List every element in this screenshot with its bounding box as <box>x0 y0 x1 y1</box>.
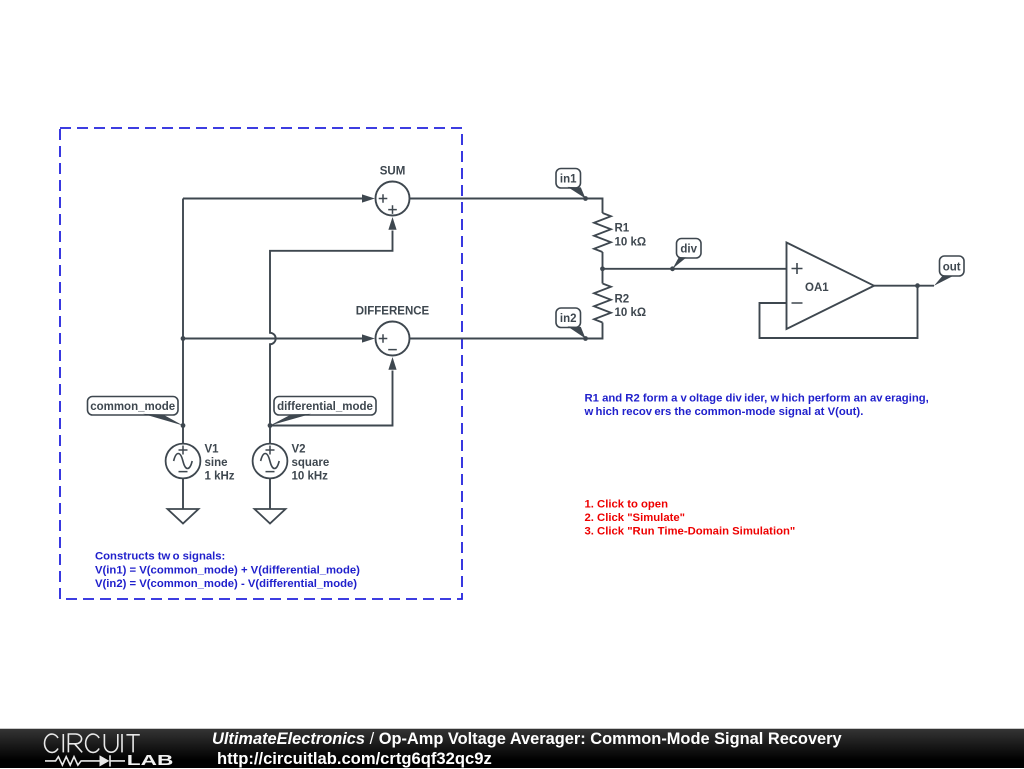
logo letter I <box>121 734 123 752</box>
arrowhead into DIFFERENCE bottom <box>388 357 396 370</box>
node tag in2 <box>556 308 586 339</box>
wire R2 bottom to in2 <box>410 323 603 339</box>
node junction in2 <box>583 336 588 341</box>
op-amp OA1 <box>787 243 875 330</box>
svg-text:V(in1) = V(common_mode) + V(di: V(in1) = V(common_mode) + V(differential… <box>95 565 360 577</box>
svg-text:V2: V2 <box>292 444 306 456</box>
svg-text:LAB: LAB <box>127 752 174 769</box>
arrowhead into SUM left <box>362 194 375 202</box>
node junction differential_mode tag <box>268 423 273 428</box>
wire to SUM plus input <box>183 198 362 200</box>
footer bar <box>0 728 1024 768</box>
svg-text:V1: V1 <box>205 444 220 456</box>
wire V2 up branch with hop to SUM <box>270 231 393 426</box>
svg-text:10 kΩ: 10 kΩ <box>615 237 647 249</box>
summing block SUM <box>376 166 410 216</box>
svg-text:Constructs tw o signals:: Constructs tw o signals: <box>95 551 225 563</box>
node tag differential_mode <box>270 397 376 426</box>
node junction in1 <box>583 196 588 201</box>
wire div net to op-amp <box>603 268 787 270</box>
svg-text:1. Click to open: 1. Click to open <box>585 499 669 511</box>
logo diode triangle <box>100 755 110 766</box>
node junction div left <box>600 266 605 271</box>
svg-text:in2: in2 <box>560 313 577 325</box>
logo letter I <box>62 734 64 752</box>
annotation red instructions <box>585 499 796 538</box>
logo letter T <box>126 735 139 753</box>
node tag in1 <box>556 169 586 199</box>
svg-text:common_mode: common_mode <box>90 401 175 413</box>
node tag common_mode <box>88 397 184 426</box>
wire div node to R2 top <box>602 269 604 284</box>
wire R1 bottom to div node <box>602 252 604 269</box>
node tag out <box>934 256 964 286</box>
wire V2 to DIFFERENCE bottom <box>270 371 393 426</box>
wire V2 top <box>269 426 271 444</box>
node junction output feedback <box>915 283 920 288</box>
svg-text:1 kHz: 1 kHz <box>205 471 235 483</box>
svg-text:R1: R1 <box>615 223 630 235</box>
CircuitLab logo <box>0 729 200 769</box>
logo letter U <box>104 734 117 752</box>
svg-text:in1: in1 <box>560 174 577 186</box>
wire V1 to ground <box>182 478 184 509</box>
node junction common_mode tag <box>181 423 186 428</box>
arrowhead into SUM bottom <box>388 217 396 230</box>
svg-text:DIFFERENCE: DIFFERENCE <box>356 306 430 318</box>
logo resistor symbol <box>45 757 100 765</box>
enclosure dashed box <box>60 128 462 599</box>
voltage source V2 <box>253 444 330 483</box>
resistor R2 <box>594 284 646 323</box>
logo letter C <box>86 734 99 752</box>
voltage source V1 <box>166 444 235 483</box>
svg-text:w hich recov ers the common-mo: w hich recov ers the common-mode signal … <box>584 406 864 418</box>
resistor R1 <box>594 213 646 252</box>
wire common_mode vertical <box>182 199 184 444</box>
svg-text:V(in2) = V(common_mode) - V(di: V(in2) = V(common_mode) - V(differential… <box>95 578 357 590</box>
svg-text:2. Click "Simulate": 2. Click "Simulate" <box>585 512 686 524</box>
logo diode bar and wire <box>110 755 125 766</box>
svg-text:3. Click "Run Time-Domain Simu: 3. Click "Run Time-Domain Simulation" <box>585 526 796 538</box>
node junction div tag <box>670 266 675 271</box>
svg-text:SUM: SUM <box>380 166 406 178</box>
svg-text:10 kHz: 10 kHz <box>292 471 329 483</box>
svg-text:OA1: OA1 <box>805 282 829 294</box>
svg-text:square: square <box>292 457 330 469</box>
ground under V2 <box>255 509 286 524</box>
svg-text:R1 and R2 form a v oltage div: R1 and R2 form a v oltage div ider, w hi… <box>585 393 929 405</box>
arrowhead into DIFFERENCE left <box>362 334 375 342</box>
wire op-amp feedback loop <box>760 286 918 338</box>
wire to DIFFERENCE plus input <box>183 338 362 340</box>
node junction on common_mode at DIFFERENCE branch <box>181 336 186 341</box>
summing block DIFFERENCE <box>356 306 430 356</box>
svg-text:10 kΩ: 10 kΩ <box>615 307 647 319</box>
svg-text:R2: R2 <box>615 294 630 306</box>
node tag div <box>673 239 702 269</box>
svg-text:sine: sine <box>205 457 228 469</box>
annotation blue bottom <box>95 551 360 591</box>
wire SUM output to in1 <box>410 199 603 214</box>
logo letter R <box>68 734 82 752</box>
wire op-amp output to out <box>874 285 934 287</box>
ground under V1 <box>168 509 199 524</box>
svg-text:out: out <box>943 262 961 274</box>
wire V2 to ground <box>269 478 271 509</box>
svg-text:differential_mode: differential_mode <box>277 401 373 413</box>
svg-text:div: div <box>680 244 697 256</box>
logo letter C <box>45 734 58 752</box>
annotation blue right <box>584 393 929 419</box>
